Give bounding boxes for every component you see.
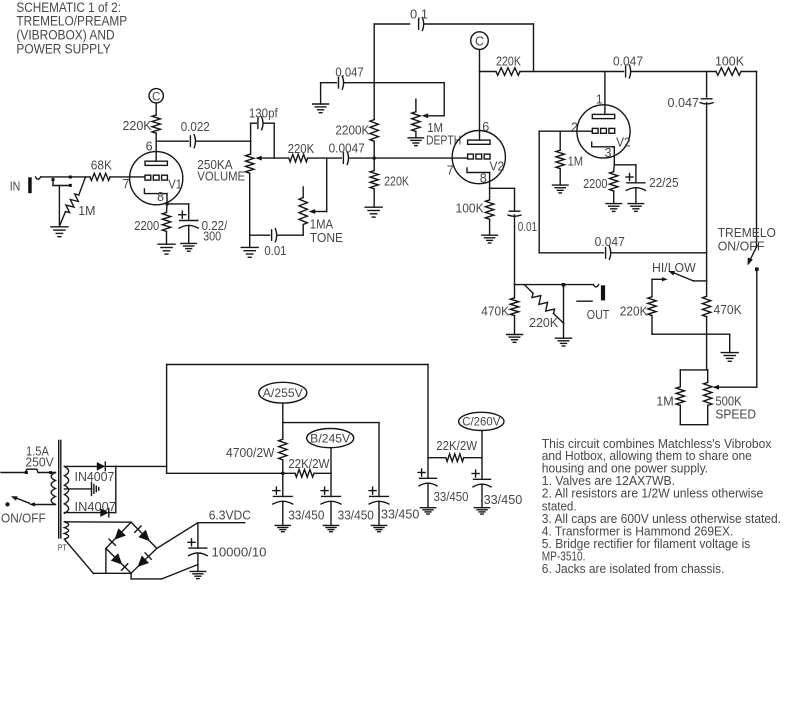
wire 0.047 vert down: [706, 103, 708, 297]
wire 22K right to C: [464, 457, 482, 459]
label 33/450 no1: [288, 508, 324, 523]
wire 4700 to rail: [282, 460, 284, 473]
wire supply right drop: [427, 365, 429, 458]
capacitor 33/450 no3: [370, 495, 389, 497]
wire V2b plate feed: [604, 72, 606, 115]
label 2200 V2b: [583, 176, 607, 191]
svg-text:A/255V: A/255V: [263, 386, 303, 400]
svg-text:470K: 470K: [481, 304, 509, 319]
label 0.01 tone: [264, 243, 286, 258]
label V1: [168, 176, 182, 191]
wire 220K to ground lower: [373, 189, 375, 207]
wire 470K to rail: [706, 317, 708, 335]
wire 0.047 vert top: [706, 72, 708, 98]
wire grid rail to 220K lower: [373, 158, 375, 171]
label 33/450 no3: [381, 507, 419, 522]
capacitor 0.01 tone wire left: [250, 234, 270, 236]
wire 2200K to grid rail: [373, 141, 375, 158]
wire diode to junction: [105, 465, 116, 467]
wire HV junction vertical: [115, 466, 117, 512]
resistor 2200 V1: [162, 213, 170, 232]
svg-text:22/25: 22/25: [649, 175, 678, 190]
wire HV center tap: [64, 488, 91, 490]
svg-text:POWER SUPPLY: POWER SUPPLY: [16, 41, 110, 56]
svg-text:V1: V1: [168, 176, 182, 191]
label 220K hilow: [620, 304, 648, 319]
svg-text:2200K: 2200K: [335, 122, 369, 137]
potentiometer 1M DEPTH: [412, 112, 420, 132]
wire cap5 lead: [481, 458, 483, 480]
svg-text:0.047: 0.047: [668, 95, 700, 110]
label 220K lower: [384, 173, 409, 188]
ground 33/450 no4: [420, 507, 435, 509]
label TREMELO ON/OFF: [718, 225, 776, 254]
svg-text:C/260V: C/260V: [462, 415, 500, 429]
speed wiper arrow: [713, 385, 720, 390]
diode IN4007 lower: [100, 508, 109, 517]
wire C ellipse down: [481, 431, 483, 458]
svg-text:10000/10: 10000/10: [212, 545, 267, 560]
diode IN4007 upper: [97, 462, 106, 471]
resistor 2200K: [370, 120, 378, 142]
wire 100K feed: [489, 188, 491, 200]
svg-text:33/450: 33/450: [434, 489, 469, 504]
wire 0.022 to volume: [196, 140, 250, 142]
resistor 470K tremolo: [702, 296, 710, 316]
wire 6.3VDC: [198, 522, 245, 524]
wire rail to ground branch: [707, 333, 730, 335]
bridge diode upper-left: [115, 528, 126, 540]
junction dot grid rail: [373, 157, 376, 160]
svg-text:6. Jacks are isolated from cha: 6. Jacks are isolated from chassis.: [542, 561, 725, 576]
triode V2a: [452, 131, 505, 184]
resistor 1M input leads: [79, 177, 86, 195]
resistor 1M V2b: [556, 150, 564, 168]
wire 22K left to B: [314, 472, 331, 474]
ground center tap: [91, 482, 93, 495]
transformer core: [58, 440, 60, 538]
svg-text:2: 2: [571, 121, 578, 135]
wire 0.01 to tone pot: [278, 234, 304, 236]
svg-text:1M: 1M: [78, 203, 95, 218]
wire A branch right: [283, 422, 379, 424]
wire junction to supply box: [116, 465, 167, 467]
label 33/450 no5: [484, 492, 523, 507]
capacitor 0.1: [418, 19, 420, 29]
capacitor 33/450 no5: [474, 478, 491, 480]
wire rail to speed: [706, 334, 708, 370]
svg-text:0.047: 0.047: [613, 54, 643, 69]
wire grid vertical: [538, 131, 540, 253]
wire 0.047 to central: [344, 82, 374, 84]
svg-text:IN4007: IN4007: [75, 499, 116, 514]
potentiometer 1MA TONE: [299, 198, 307, 225]
switch TREMELO blade: [750, 246, 757, 260]
capacitor 0.022: [189, 136, 191, 147]
label 1.5A 250V: [25, 444, 54, 470]
wire cathode to 0.01: [490, 187, 515, 189]
resistor 220K V1 plate: [152, 115, 160, 133]
wire cap1 lead: [282, 473, 284, 496]
svg-text:300: 300: [203, 228, 221, 243]
title text block: [16, 0, 127, 56]
transformer primary winding: [51, 473, 55, 505]
junction dot tremolo contact: [755, 267, 759, 271]
wire top rail left segment: [374, 23, 409, 25]
label 1M V2b: [568, 154, 584, 169]
pin label 6 V2a: [482, 120, 489, 134]
junction dot on input wire: [69, 176, 72, 179]
wire V1 plate to node: [155, 141, 157, 161]
svg-text:0.1: 0.1: [410, 7, 428, 22]
wire out rail: [515, 284, 594, 286]
label 100K rail2: [715, 54, 744, 69]
wire switch to primary: [34, 504, 56, 506]
wire speed loop top: [680, 369, 707, 371]
resistor 220K to ground: [370, 171, 378, 189]
label 1M DEPTH: [426, 120, 461, 148]
capacitor 0.0047: [342, 153, 344, 164]
wire central vertical top: [373, 24, 375, 120]
svg-text:IN: IN: [10, 179, 21, 194]
pin label 3 V2b: [605, 146, 612, 160]
wire cap2 ground lead: [330, 502, 332, 526]
depth wiper arrow: [422, 113, 429, 118]
svg-text:220K: 220K: [496, 54, 521, 69]
resistor 220K diagonal: [532, 293, 555, 313]
resistor 100K rail2: [716, 68, 741, 76]
svg-text:4700/2W: 4700/2W: [226, 445, 275, 460]
resistor 1M V2b grid lead: [559, 131, 561, 150]
wire V2b grid left: [539, 130, 592, 132]
svg-text:0.022: 0.022: [181, 119, 210, 134]
ground 33/450 no1: [275, 524, 290, 526]
svg-text:ON/OFF: ON/OFF: [1, 511, 46, 526]
wire 22/25 ground: [635, 188, 637, 204]
label 250KA VOLUME: [197, 157, 245, 184]
wire cap4 lead: [427, 458, 429, 479]
junction dot out rail: [562, 283, 566, 287]
ground volume: [241, 246, 258, 248]
svg-text:1M: 1M: [568, 154, 584, 169]
wire V2a plate feed: [479, 72, 481, 141]
wire cap2 lead: [330, 473, 332, 496]
wire 220K hilow bottom: [651, 316, 653, 335]
label 0.047 oscillator: [595, 234, 625, 249]
capacitor 33/450 no4: [420, 477, 437, 479]
ground 2200 V2b: [606, 203, 622, 205]
wire volume bottom: [249, 173, 251, 247]
svg-text:0.0047: 0.0047: [329, 141, 365, 156]
switch HI/LOW blade: [674, 273, 694, 281]
wire bottom rail right: [612, 252, 707, 254]
label V2 (b): [616, 134, 631, 149]
label 2200K: [335, 122, 369, 137]
capacitor 22/25: [627, 182, 645, 184]
label 220K rail2: [496, 54, 521, 69]
ground 220K lower: [365, 206, 382, 208]
wire supply bottom rail: [167, 472, 295, 474]
label ON/OFF mains: [1, 511, 46, 526]
svg-text:22K/2W: 22K/2W: [288, 456, 330, 471]
label 0.01 output: [518, 219, 537, 234]
ground 33/450 no3: [371, 524, 386, 526]
label 220K V1 plate: [123, 118, 152, 133]
svg-text:3: 3: [605, 146, 612, 160]
resistor 1M speed: [676, 387, 684, 406]
svg-text:C: C: [152, 91, 160, 103]
wire volume top vertical: [250, 141, 252, 154]
label 0.022: [181, 119, 210, 134]
svg-text:0.01: 0.01: [264, 243, 286, 258]
ground 0.22/300: [181, 242, 197, 244]
svg-text:TREMELO/PREAMP: TREMELO/PREAMP: [16, 14, 127, 29]
resistor 1M speed leads: [679, 370, 681, 387]
svg-text:IN4007: IN4007: [75, 469, 115, 484]
svg-text:8: 8: [157, 190, 164, 204]
label 1M input: [78, 203, 95, 218]
svg-text:TONE: TONE: [310, 230, 344, 245]
svg-text:68K: 68K: [91, 158, 112, 173]
label 0.0047: [329, 141, 365, 156]
switch HI/LOW left contact: [652, 278, 662, 280]
node C (V1 supply): [149, 89, 163, 103]
resistor 22K/2W left: [295, 470, 314, 478]
svg-text:V2: V2: [490, 159, 505, 174]
pin label 2 V2b: [571, 121, 578, 135]
volume wiper arrow: [255, 156, 262, 161]
triode V2b: [577, 105, 630, 158]
capacitor 33/450 no2: [322, 495, 341, 497]
wire rail2 end: [741, 71, 757, 73]
capacitor 0.22/300: [180, 220, 198, 222]
junction dot fuse left: [25, 471, 28, 474]
ground 1M V2b: [553, 184, 569, 186]
label 220K diagonal: [529, 315, 558, 330]
ground out rail: [556, 337, 572, 339]
wire A down: [282, 403, 284, 439]
wire bridge plus diagonal: [157, 523, 198, 549]
ground 1M DEPTH: [408, 137, 424, 139]
capacitor 10000/10: [189, 547, 207, 549]
wire tone wiper: [315, 211, 327, 213]
capacitor 130pf: [257, 118, 259, 128]
wire cap 10000 ground lead: [197, 553, 199, 571]
svg-text:DEPTH: DEPTH: [426, 133, 461, 148]
ground 0.047 feedback: [313, 103, 329, 105]
svg-text:100K: 100K: [456, 201, 484, 216]
label 220K mixer: [288, 141, 315, 156]
svg-text:33/450: 33/450: [484, 492, 523, 507]
svg-text:6: 6: [146, 139, 153, 153]
notes text block: [542, 436, 781, 576]
potentiometer 250KA VOLUME: [246, 154, 254, 173]
wire C to 220K: [155, 103, 157, 115]
pin label 8 V1: [157, 190, 164, 204]
pin label 7 V1: [123, 177, 130, 191]
resistor 2200 V2b: [610, 172, 618, 191]
capacitor 0.047 oscillator: [605, 248, 607, 259]
wire V2b cathode down: [613, 147, 615, 165]
resistor 220K diagonal leads: [524, 285, 533, 294]
junction dot node A rail: [281, 472, 284, 475]
tone wiper arrow: [309, 209, 316, 214]
ground input jack: [51, 226, 68, 228]
svg-text:1M: 1M: [656, 393, 674, 408]
wire filament top to bridge: [64, 521, 131, 523]
fuse 1.5A: [25, 469, 38, 472]
label 0.22/300: [202, 218, 228, 244]
capacitor 0.047 tremolo: [701, 98, 712, 100]
svg-text:7: 7: [123, 177, 130, 191]
depth pot top lead: [415, 99, 417, 112]
label 10000/10: [212, 545, 267, 560]
bridge rectifier outline: [106, 522, 157, 573]
label 0.1: [410, 7, 428, 22]
svg-text:33/450: 33/450: [338, 508, 374, 523]
svg-text:220K: 220K: [288, 141, 315, 156]
tone pot bottom lead: [302, 225, 304, 229]
wire HV top to diode: [64, 465, 96, 467]
label IN: [10, 179, 21, 194]
resistor 220K hilow: [648, 297, 656, 316]
resistor 220K mixer: [289, 154, 308, 162]
svg-text:100K: 100K: [715, 54, 744, 69]
wire bridge left corner drop: [105, 548, 107, 573]
wire cap4 ground lead: [427, 483, 429, 507]
junction dot shunt end: [69, 184, 72, 187]
svg-text:VOLUME: VOLUME: [197, 169, 245, 184]
node B/245V: [307, 429, 354, 448]
svg-text:33/450: 33/450: [288, 508, 324, 523]
svg-text:0.01: 0.01: [518, 219, 537, 234]
ground 22/25: [628, 203, 644, 205]
wire C2 down: [479, 49, 481, 71]
wire HV bottom to diode: [64, 512, 100, 514]
wire 0.22/300 to ground: [188, 226, 190, 244]
label 130pf: [249, 106, 278, 121]
bridge diode lower-right: [138, 556, 150, 567]
wire supply riser: [166, 466, 168, 473]
label 33/450 no4: [434, 489, 469, 504]
capacitor 0.01 output: [509, 210, 520, 212]
label 0.047 rail2: [613, 54, 643, 69]
OUT jack: [593, 285, 598, 287]
label 68K: [91, 158, 112, 173]
label 470K tremolo: [714, 302, 742, 317]
label 33/450 no2: [338, 508, 374, 523]
wire lower diode to junction: [109, 512, 116, 514]
wire 100K to ground: [489, 219, 491, 235]
ground 2200 V1: [158, 243, 175, 245]
svg-text:220K: 220K: [384, 173, 409, 188]
capacitor 0.01 tone: [271, 230, 273, 241]
pin label 6 V1: [146, 139, 153, 153]
ground 33/450 no5: [474, 507, 489, 509]
switch ON/OFF blade: [17, 498, 30, 503]
label V2 (a): [490, 159, 505, 174]
svg-text:220K: 220K: [123, 118, 152, 133]
wire shunt to ground: [58, 186, 60, 227]
wire cap5 ground lead: [481, 484, 483, 507]
resistor 68K: [90, 173, 110, 180]
capacitor 33/450 no1: [273, 495, 292, 497]
potentiometer 500K SPEED leads: [707, 370, 709, 383]
wire 0.047 left: [321, 82, 337, 84]
ground 33/450 no2: [323, 524, 338, 526]
label 500K SPEED: [715, 393, 756, 421]
bridge diode upper-right: [138, 530, 149, 542]
node C (V2 supply): [471, 32, 489, 50]
label 4700/2W: [226, 445, 275, 460]
resistor 4700/2W: [279, 439, 287, 460]
wire filament bottom diagonal: [64, 539, 93, 573]
svg-text:2200: 2200: [583, 176, 607, 191]
wire out rail ground drop: [563, 285, 565, 339]
wire cap 10000 lead: [197, 523, 199, 548]
bridge diode lower-left: [111, 553, 123, 564]
wire 2200 V2b ground: [613, 191, 615, 204]
wire 220K to 0.0047: [308, 157, 342, 159]
wire 0.047 ground drop: [320, 83, 322, 104]
label 2200 V1: [134, 218, 159, 233]
wire right drop to 22K: [428, 457, 446, 459]
label 1M speed: [656, 393, 674, 408]
wire 470K output ground: [514, 316, 516, 335]
label PT: [58, 542, 67, 552]
wire mains in: [1, 472, 25, 474]
wire B down: [330, 448, 332, 474]
svg-text:1: 1: [596, 93, 603, 107]
svg-text:B/245V: B/245V: [310, 431, 350, 445]
svg-text:220K: 220K: [529, 315, 558, 330]
svg-text:V2: V2: [616, 134, 631, 149]
pin label 8 V2a: [480, 171, 487, 185]
node A/255V: [259, 382, 307, 403]
wire 130pf right side: [264, 122, 274, 124]
svg-text:C: C: [475, 35, 484, 49]
wire volume wiper to 220K: [262, 157, 289, 159]
wire depth to ground: [415, 132, 417, 138]
junction dot jack tip: [52, 178, 55, 181]
wire bottom rail left: [539, 252, 603, 254]
wire top rail right segment: [425, 23, 534, 25]
junction dot V1 cathode: [166, 202, 169, 205]
label 22/25: [649, 175, 678, 190]
svg-text:SPEED: SPEED: [715, 407, 756, 422]
svg-text:(VIBROBOX) AND: (VIBROBOX) AND: [16, 28, 114, 43]
wire depth branch: [374, 82, 444, 84]
wire cap1 ground lead: [282, 502, 284, 526]
jack shunt contact: [52, 179, 54, 186]
svg-text:6.3VDC: 6.3VDC: [209, 508, 251, 523]
svg-text:OUT: OUT: [587, 307, 610, 322]
wire cathode junction to cap 0.22/300: [167, 203, 189, 205]
wire rail2 left: [480, 71, 497, 73]
wire speed loop bottom: [680, 424, 707, 426]
wire V1 cathode to 2200: [166, 204, 169, 213]
wire V1 cathode to junction: [166, 194, 168, 204]
wire 1M to ground: [559, 169, 561, 186]
wire 220K hilow top: [651, 279, 653, 296]
resistor 220K rail2: [496, 68, 520, 76]
wire cap3 ground lead: [378, 502, 380, 526]
wire rail2 right: [632, 71, 717, 73]
label IN4007 lower: [75, 499, 116, 514]
svg-text:470K: 470K: [714, 302, 742, 317]
svg-text:22K/2W: 22K/2W: [436, 438, 477, 453]
wire cathode to 22/25: [614, 164, 636, 166]
